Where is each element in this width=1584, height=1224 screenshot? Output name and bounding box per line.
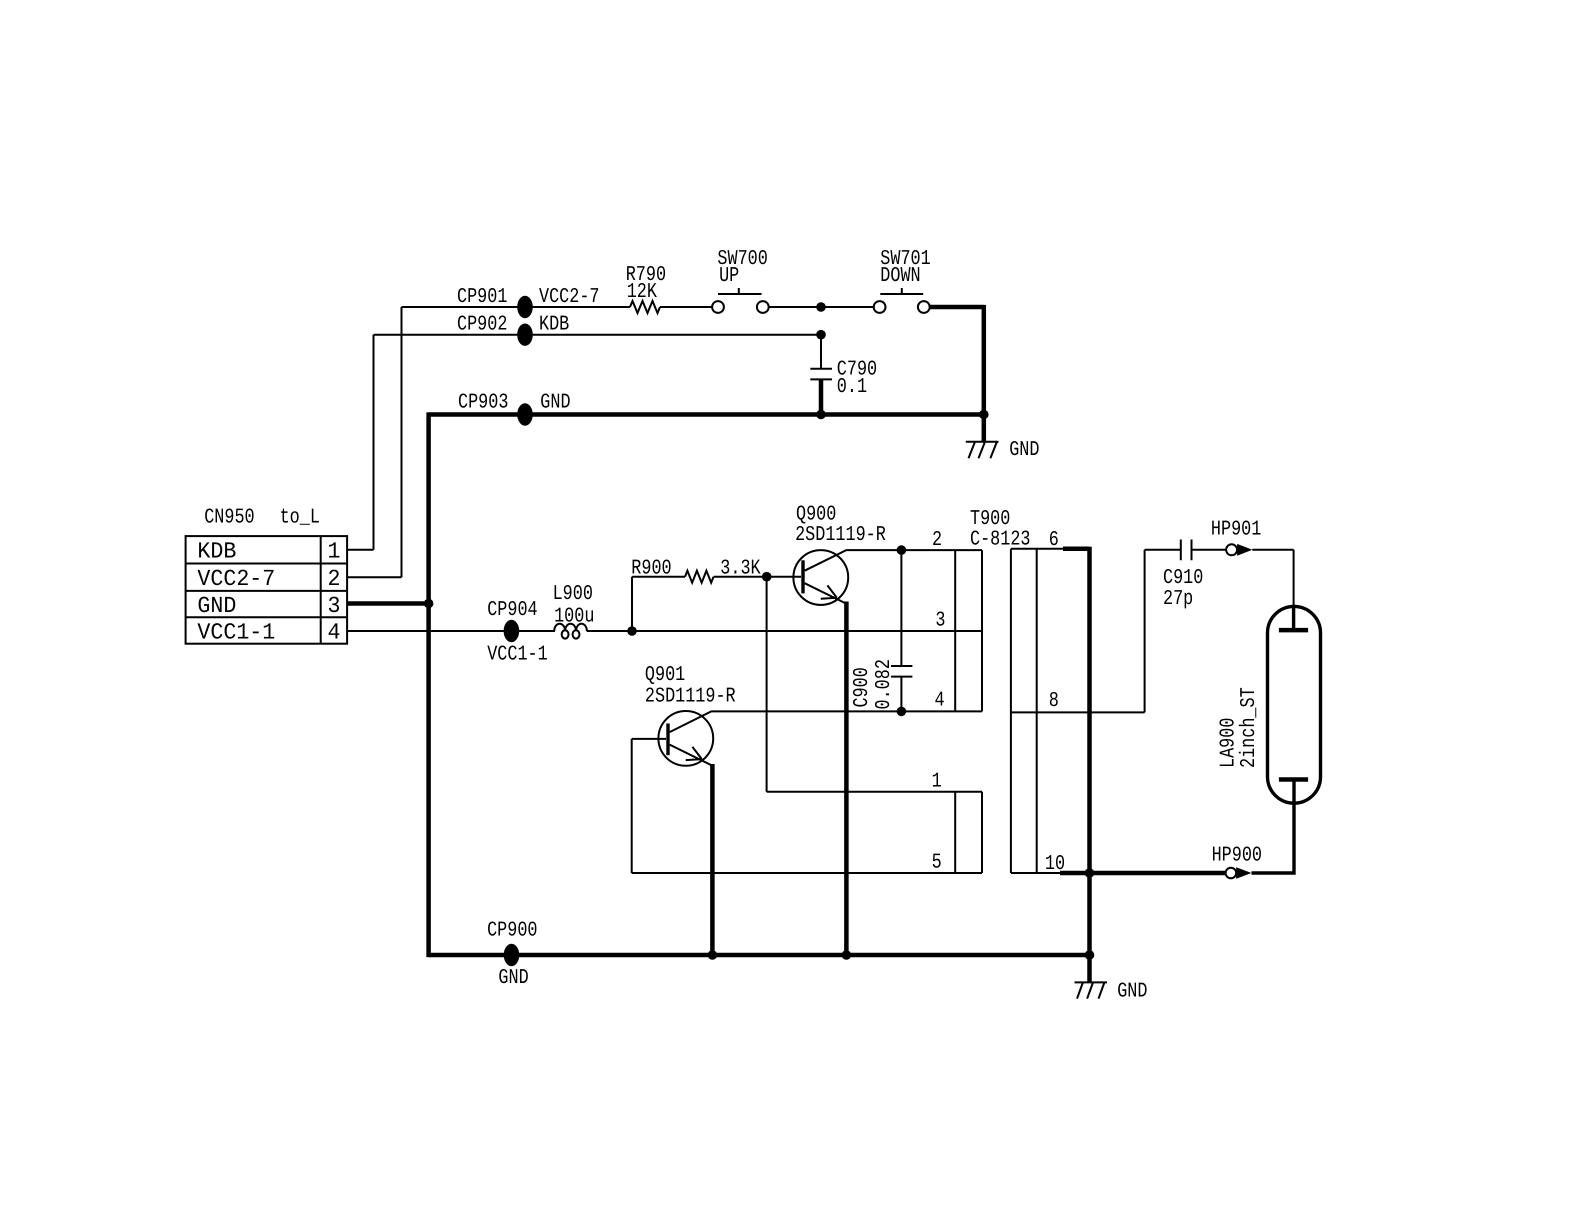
wire VCC1-1 net: pin 4 horizontal run to T900 pin 3 [347,630,555,632]
svg-text:6: 6 [1049,529,1059,552]
wire C910 to HP901 [1192,549,1227,551]
wire R900 to Q900 base junction [714,576,767,578]
svg-text:CP904: CP904 [487,599,537,622]
connector HP900 circle [1226,868,1237,879]
transistor Q900 circle [793,550,848,605]
svg-text:10: 10 [1045,853,1065,876]
capacitor C900 plates [891,666,912,677]
svg-text:Q900: Q900 [796,503,836,526]
svg-text:2SD1119-R: 2SD1119-R [795,524,886,547]
wire R900 left lead vertical [631,577,633,631]
svg-text:VCC1-1: VCC1-1 [197,619,275,645]
svg-text:CP902: CP902 [457,314,507,337]
svg-text:KDB: KDB [197,539,236,565]
wire T900 pin8 row line to C910 [1011,711,1145,713]
transistor Q900 base bar [801,560,804,593]
lamp LA900 bottom electrode stem [1292,780,1295,805]
switch SW701 actuator bar [880,288,923,294]
wire secondary HV thick vertical rail [1087,547,1092,955]
wire C790 bottom lead thick to ground rail [819,379,824,414]
svg-text:GND: GND [1009,439,1039,462]
connector HP901 circle [1226,544,1237,555]
node junction Q901 emitter / bottom rail [708,950,718,960]
transformer T900 secondary winding box [1011,549,1037,873]
wire bottom GND rail thick [429,953,1090,958]
svg-text:R900: R900 [631,557,671,580]
wire T900 pin5 row line [632,872,982,874]
transistor Q901 base bar [666,724,669,756]
wire GND net: pin 3 thick stub to main GND vertical [347,601,429,606]
jumper CP903 [517,403,533,425]
wire GND rail CP903 horizontal thick [429,412,984,417]
transformer T900 primary winding upper box [955,550,982,711]
wire Q901 base horizontal [632,738,666,740]
wire R900 left lead horizontal [632,576,685,578]
svg-text:C900: C900 [851,667,874,707]
svg-text:2: 2 [328,566,341,592]
svg-text:2inch_ST: 2inch_ST [1238,687,1261,768]
wire T900 pin10 thick stub [1060,871,1090,876]
connector HP900 arrow [1236,867,1251,878]
node junction pin10 / HP900 / HV rail [1085,868,1095,878]
resistor R900 zigzag [685,571,714,583]
switch SW701 left contact [874,301,886,313]
svg-text:GND: GND [498,967,528,990]
svg-text:0.082: 0.082 [873,659,896,709]
wire T900 pin1 row line [767,791,982,793]
svg-text:VCC2-7: VCC2-7 [539,286,600,309]
svg-text:C910: C910 [1163,567,1203,590]
jumper CP901 [517,296,533,318]
node junction Q900 collector / C900 top / T900 pin2 [897,545,907,555]
wire junction to Q900 base [767,576,801,578]
wire GND main vertical thick left side [426,412,431,957]
svg-text:2SD1119-R: 2SD1119-R [645,686,736,709]
connector HP901 arrow [1237,544,1252,556]
switch SW700 right contact [757,301,769,313]
svg-text:4: 4 [328,619,341,645]
node junction VCC1-1 / R900 branch [627,626,637,636]
svg-text:3: 3 [328,593,341,619]
wire ground stub bottom right [1087,955,1092,982]
wire KDB net: pin 1 stub to table [347,549,373,551]
wire C790 top lead [820,335,822,369]
svg-text:100u: 100u [554,606,594,629]
capacitor C790 plates [810,369,832,380]
node junction KDB / C790 top [816,330,826,340]
node junction Q900 emitter / bottom rail [842,950,852,960]
wire KDB net: vertical from CN950 pin 1 up [373,335,375,550]
lamp LA900 top electrode stem [1292,605,1295,630]
wire HP901 to lamp top [1252,550,1293,605]
svg-text:2: 2 [932,529,942,552]
transistor Q901 circle [658,711,713,766]
transistor Q900 collector line [805,550,902,571]
svg-text:CN950: CN950 [204,506,254,529]
svg-text:to_L: to_L [280,506,320,529]
transistor Q901 emitter line with arrow [670,745,713,766]
svg-text:GND: GND [1117,981,1147,1004]
svg-text:8: 8 [1049,690,1059,713]
wire T900 pin1 branch vertical down [766,577,768,792]
wire T900 pin6 thick stub [1063,547,1090,552]
svg-text:1: 1 [328,539,341,565]
connector CN950 pin-number column divider [320,536,322,644]
wire T900 pin10 row line [1011,872,1061,874]
wire T900 pin4 row line [901,710,982,712]
svg-text:1: 1 [932,771,942,794]
wire VCC2-7 net: top horizontal run to R790 [402,306,631,308]
wire VCC2-7 net: pin 2 stub to table [347,576,401,578]
svg-text:12K: 12K [627,281,658,304]
node junction pin3 / GND vertical [424,599,434,609]
svg-text:4: 4 [935,689,945,712]
switch SW700 left contact [712,301,724,313]
jumper CP902 [517,324,533,346]
svg-text:KDB: KDB [539,314,569,337]
switch SW700 actuator bar [718,288,762,294]
wire lamp bottom lead thick [1252,803,1296,873]
svg-text:CP900: CP900 [487,920,537,943]
svg-text:27p: 27p [1163,588,1193,611]
node junction of SW700/SW701/C790 [816,302,826,312]
transformer T900 primary winding lower box [955,792,982,873]
wire T900 pin2 row line [901,549,982,551]
jumper CP904 [504,620,520,642]
svg-text:VCC1-1: VCC1-1 [487,643,548,666]
svg-text:HP901: HP901 [1211,518,1261,541]
wire T900 pin3 row line (VCC1-1) [901,630,982,632]
wire T900 pin6 row line [1011,548,1064,550]
svg-text:HP900: HP900 [1212,845,1262,868]
node junction Q901 collector / C900 bottom / T900 pin4 [897,707,907,717]
svg-text:CP903: CP903 [458,392,508,415]
transistor Q900 emitter line with arrow [805,583,847,603]
lamp LA900 top electrode bar [1279,628,1308,633]
svg-text:5: 5 [932,851,942,874]
wire SW701 to right corner, thick, down to ground rail [930,305,984,441]
ground symbol top right [966,442,999,459]
svg-text:GND: GND [540,392,570,415]
wire R790 to SW700 [660,306,712,308]
node junction bottom rail / HV rail / ground [1085,950,1095,960]
lamp LA900 bottom electrode bar [1279,777,1308,782]
svg-text:CP901: CP901 [457,286,507,309]
svg-text:VCC2-7: VCC2-7 [197,566,275,592]
wire Q901 base branch down to T900 pin5 row [631,739,633,873]
connector CN950 table outline [186,536,348,644]
ground symbol bottom right [1075,982,1108,998]
transistor Q901 collector line [670,711,902,732]
wire SW700 to junction [769,306,821,308]
svg-text:UP: UP [719,265,739,288]
svg-text:0.1: 0.1 [837,376,867,399]
wire Q900 emitter thick vertical to bottom GND rail [844,602,849,956]
connector CN950 row dividers [186,564,348,618]
svg-text:GND: GND [197,593,236,619]
wire pin8 vertical up to C910 [1144,550,1146,713]
node junction GND rail / ground symbol [979,410,989,420]
node junction R900 / Q900 base / T900 pin1 branch [762,572,772,582]
svg-text:T900: T900 [970,508,1010,531]
capacitor C910 plates [1181,540,1192,561]
wire Q901 emitter thick vertical to bottom GND rail [710,764,715,955]
inductor L900 coil [554,624,587,631]
wire KDB net: horizontal run to C790 junction [374,334,822,336]
svg-text:Q901: Q901 [645,664,685,687]
wire C900 top lead [900,550,902,666]
svg-text:3: 3 [935,609,945,632]
wire C900 bottom lead [900,677,902,712]
switch SW701 right contact [918,301,930,313]
svg-text:DOWN: DOWN [880,265,920,288]
resistor R790 zigzag [630,301,660,313]
wire to C910 left plate [1145,549,1181,551]
svg-text:L900: L900 [553,583,593,606]
wire VCC2-7 net: vertical from CN950 pin 2 up to top row [401,307,403,577]
wire junction to SW701 [821,306,874,308]
jumper CP900 [504,944,520,966]
node junction C790 / GND rail [816,410,826,420]
lamp LA900 body outline [1268,606,1321,803]
wire HP900 to HV rail thick [1090,871,1226,876]
